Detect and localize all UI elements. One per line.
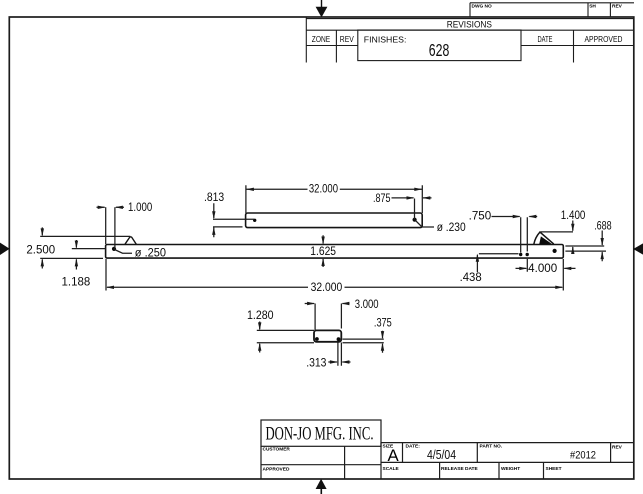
svg-text:ø .250: ø .250: [135, 248, 166, 260]
svg-text:REV: REV: [612, 444, 623, 450]
svg-text:1.400: 1.400: [561, 210, 586, 222]
svg-text:ø .230: ø .230: [437, 222, 466, 234]
svg-text:.875: .875: [373, 193, 391, 205]
svg-text:DATE:: DATE:: [406, 443, 421, 449]
svg-text:.438: .438: [460, 272, 482, 284]
svg-text:SCALE: SCALE: [383, 466, 400, 472]
svg-text:WEIGHT: WEIGHT: [501, 466, 520, 472]
svg-text:PART NO.: PART NO.: [480, 443, 503, 449]
svg-text:.313: .313: [306, 357, 326, 369]
svg-text:32.000: 32.000: [311, 282, 343, 294]
svg-text:REV: REV: [340, 35, 355, 44]
svg-text:.813: .813: [204, 192, 224, 204]
svg-text:DWG NO: DWG NO: [472, 4, 493, 10]
svg-text:1.625: 1.625: [310, 246, 336, 258]
svg-text:1.188: 1.188: [62, 276, 91, 288]
svg-text:RELEASE DATE: RELEASE DATE: [441, 466, 478, 472]
svg-text:4/5/04: 4/5/04: [427, 448, 456, 462]
svg-text:REV: REV: [612, 4, 623, 10]
svg-text:FINISHES:: FINISHES:: [364, 36, 407, 45]
svg-text:4.000: 4.000: [528, 263, 557, 275]
svg-text:2.500: 2.500: [26, 245, 55, 257]
svg-text:APPROVED: APPROVED: [263, 466, 290, 472]
svg-text:#2012: #2012: [570, 450, 596, 462]
svg-text:ZONE: ZONE: [312, 35, 330, 44]
svg-text:32.000: 32.000: [309, 183, 338, 195]
svg-text:1.000: 1.000: [128, 202, 152, 214]
svg-text:1.280: 1.280: [247, 310, 274, 322]
svg-text:A: A: [388, 446, 400, 465]
svg-text:CUSTOMER: CUSTOMER: [263, 447, 291, 453]
svg-text:3.000: 3.000: [355, 299, 379, 311]
svg-text:628: 628: [429, 40, 450, 60]
svg-text:.375: .375: [374, 318, 392, 330]
svg-text:DON-JO MFG. INC.: DON-JO MFG. INC.: [266, 424, 374, 445]
svg-text:SH: SH: [589, 4, 596, 10]
svg-text:.750: .750: [469, 210, 492, 222]
svg-text:DATE: DATE: [538, 35, 553, 44]
svg-text:APPROVED: APPROVED: [585, 35, 623, 44]
svg-text:.688: .688: [594, 220, 612, 232]
svg-text:REVISIONS: REVISIONS: [447, 19, 492, 29]
svg-text:SHEET: SHEET: [546, 466, 562, 472]
